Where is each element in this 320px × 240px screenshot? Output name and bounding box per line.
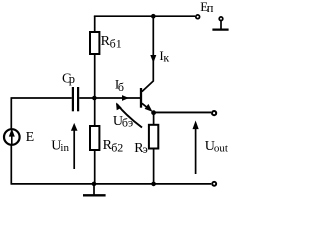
voltage Ube arc: [117, 104, 142, 128]
wire base: [79, 97, 140, 99]
wire collector: [142, 16, 153, 91]
current Ik arrow: [150, 55, 156, 63]
svg-text:п: п: [207, 1, 214, 15]
terminal out bottom: [212, 182, 216, 186]
wire emitter out: [154, 111, 211, 113]
resistor Re: [134, 112, 158, 184]
node emitter: [151, 110, 156, 115]
resistor Rb1: [90, 16, 122, 98]
wire input top: [11, 97, 72, 99]
terminal Ep: [196, 15, 200, 19]
terminal common top right: [212, 17, 228, 30]
resistor Rb2: [90, 98, 123, 184]
voltage Uin arrow: [51, 123, 77, 169]
svg-text:б1: б1: [110, 36, 122, 50]
wire top rail: [95, 15, 195, 18]
capacitor Cp: [62, 72, 78, 112]
node bottom Rb2: [92, 182, 97, 187]
source E: [4, 129, 34, 145]
svg-text:p: p: [69, 72, 75, 86]
svg-text:б2: б2: [111, 141, 123, 155]
transistor emitter: [142, 103, 150, 109]
wire left vertical: [10, 98, 12, 184]
svg-text:out: out: [214, 142, 228, 154]
svg-text:к: к: [163, 50, 169, 64]
voltage Uout arrow: [193, 121, 228, 175]
terminal out top: [212, 111, 216, 115]
svg-text:э: э: [143, 142, 148, 156]
node top rail collector: [151, 14, 156, 19]
wire bottom rail: [11, 183, 212, 185]
transistor VT base bar: [140, 88, 142, 108]
ground: [83, 184, 106, 195]
node base divider: [92, 96, 97, 101]
svg-text:бэ: бэ: [122, 115, 133, 129]
node bottom Re: [151, 182, 156, 187]
svg-text:E: E: [26, 130, 35, 145]
svg-text:in: in: [60, 142, 69, 154]
svg-text:б: б: [118, 80, 124, 94]
current Ib arrow: [122, 95, 129, 101]
